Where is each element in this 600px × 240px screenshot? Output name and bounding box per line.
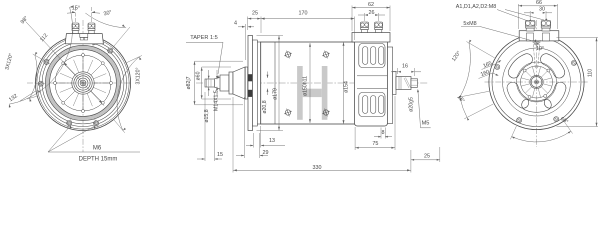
rear vent panel upper <box>359 44 385 68</box>
right view centerlines <box>485 20 589 147</box>
svg-text:75: 75 <box>372 141 378 147</box>
label A1,D1,A2,D2:M8 with leaders <box>456 4 548 21</box>
dim 13 bottom <box>246 126 285 148</box>
svg-text:ø20g5: ø20g5 <box>409 97 415 112</box>
svg-text:330: 330 <box>313 165 322 171</box>
svg-text:25: 25 <box>424 153 430 159</box>
dim 8 <box>374 128 392 139</box>
dim 112 diagonal diameter line <box>26 22 104 106</box>
svg-text:15°: 15° <box>72 6 80 12</box>
dim 15deg (left view stud angle) <box>67 6 100 22</box>
svg-text:13: 13 <box>269 138 275 144</box>
svg-text:DEPTH 15mm: DEPTH 15mm <box>79 157 118 163</box>
dim 60deg arc right view <box>510 116 572 142</box>
svg-text:170: 170 <box>299 11 308 17</box>
dim 75 <box>355 96 395 150</box>
middle view centerline <box>196 82 428 84</box>
middle view terminal box <box>352 33 390 43</box>
svg-text:8: 8 <box>382 130 385 136</box>
dim phi150h11 <box>303 43 312 123</box>
left view terminal stud 2 <box>88 23 95 34</box>
bell flange ring <box>245 67 248 99</box>
right view hub spokes <box>521 67 552 98</box>
dim 30deg (left view hole angle) <box>85 10 129 47</box>
label M5 <box>417 89 431 128</box>
right view cover screws 5xM8 <box>495 40 577 123</box>
dim 170 <box>261 11 354 41</box>
dim phi60 <box>196 67 232 99</box>
dim 16 rear shaft <box>391 64 421 77</box>
svg-text:M5: M5 <box>422 121 430 127</box>
svg-text:3X120°: 3X120° <box>136 67 142 84</box>
dim phi15,8 <box>204 70 210 123</box>
dim 132 leader <box>8 90 40 103</box>
dim phi179 <box>257 36 284 131</box>
dim 3X120 right arc <box>114 56 142 133</box>
dim 66 <box>518 0 557 29</box>
svg-text:5xM8: 5xM8 <box>463 21 476 27</box>
rear shaft stub <box>396 77 418 90</box>
dim 10deg <box>533 39 544 68</box>
label M6 DEPTH 15mm with leaders <box>48 125 140 162</box>
left view M6 mounting holes on bolt circle <box>36 37 114 128</box>
dim 120deg arc <box>451 40 494 100</box>
dim 15deg arc right view <box>456 94 493 120</box>
rear bearing boss <box>393 72 396 95</box>
right view terminal stud 2 <box>541 21 551 32</box>
right view outer circles <box>489 34 584 129</box>
left view inner ring and hub <box>55 55 111 111</box>
svg-text:ø150h11: ø150h11 <box>303 76 309 96</box>
dim 330 overall <box>233 97 411 173</box>
svg-text:30: 30 <box>539 7 545 13</box>
right view terminal stud 1 <box>526 21 536 32</box>
dim 30 <box>524 7 552 20</box>
left view centerlines <box>27 82 131 84</box>
front shaft step <box>220 75 229 91</box>
dim 26 <box>358 10 385 21</box>
svg-text:ø154: ø154 <box>344 81 350 93</box>
dim 98deg arc (left view) <box>9 6 73 108</box>
dim 3X120 left arc <box>4 52 41 102</box>
dim 165 leader <box>482 60 502 69</box>
lifting point symbols <box>284 51 330 117</box>
front shaft taper 1:5 <box>214 77 221 90</box>
stator body (ø154) <box>261 42 356 124</box>
svg-text:15: 15 <box>217 152 223 158</box>
mounting flange plate (ø179) <box>248 36 253 131</box>
svg-text:62: 62 <box>368 2 374 8</box>
dim 29 bottom <box>236 97 269 158</box>
dim 4 <box>234 21 254 61</box>
middle view terminal stud 2 <box>375 22 383 33</box>
rear vent panel lower <box>359 93 385 117</box>
svg-text:ø60: ø60 <box>196 71 202 80</box>
grey watermark H <box>297 66 327 120</box>
svg-text:25: 25 <box>252 11 258 17</box>
label 5xM8 leader <box>461 21 536 41</box>
svg-text:ø82j7: ø82j7 <box>186 76 192 89</box>
front bearing boss (ø60) <box>229 72 233 94</box>
svg-text:10°: 10° <box>536 46 544 52</box>
front housing bell cone <box>233 67 245 99</box>
svg-text:M6: M6 <box>93 146 102 152</box>
left view grey rim band <box>45 45 120 120</box>
svg-text:4: 4 <box>234 21 237 27</box>
rear bracket bearing lines <box>357 76 388 89</box>
dim TAPER 1:5 <box>186 35 223 78</box>
rear end bracket <box>354 40 392 126</box>
svg-text:66: 66 <box>536 0 542 6</box>
svg-text:TAPER 1:5: TAPER 1:5 <box>190 35 218 41</box>
right view hub <box>517 62 557 102</box>
dim phi20,8 <box>262 72 268 114</box>
middle view terminal stud 1 <box>361 22 369 33</box>
dim phi20g5 <box>409 97 415 112</box>
svg-text:16: 16 <box>402 64 408 70</box>
svg-text:ø20,8: ø20,8 <box>262 100 268 113</box>
left view tiny holes on inner ring <box>54 54 113 113</box>
left view terminal box <box>65 34 103 44</box>
dim phi154 <box>343 42 350 124</box>
svg-text:26: 26 <box>369 10 375 16</box>
svg-text:A1,D1,A2,D2:M8: A1,D1,A2,D2:M8 <box>456 4 496 10</box>
left view outer housing circles <box>35 35 130 130</box>
left view terminal stud 1 <box>72 23 79 34</box>
front shaft thread M14x1.5 <box>205 79 214 87</box>
dim 160 leader <box>479 69 499 78</box>
dim 25 bottom right <box>411 147 440 162</box>
dim 25 top <box>248 11 262 34</box>
right view small holes near hub <box>523 69 550 99</box>
dim 15 bottom <box>197 92 223 161</box>
left view spokes <box>55 55 111 111</box>
left view: drive-end flange view of motor <box>27 20 131 152</box>
spacer ring <box>253 40 261 126</box>
dim M14X1.5 <box>214 70 220 111</box>
right view terminal box <box>519 31 559 41</box>
svg-text:ø179: ø179 <box>273 88 279 100</box>
right view vent slots <box>507 54 566 112</box>
svg-text:29: 29 <box>263 150 269 156</box>
dim 62 <box>352 2 390 31</box>
svg-text:110: 110 <box>588 69 594 77</box>
dim 110 <box>557 38 599 127</box>
dim phi82j7 <box>186 61 243 105</box>
